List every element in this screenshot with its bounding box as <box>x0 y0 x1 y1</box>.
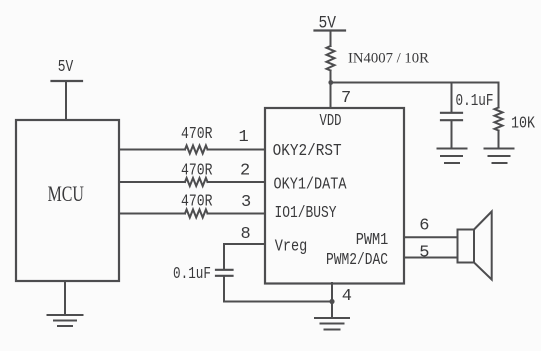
value label 0.1uF (VDD cap) <box>456 91 494 110</box>
wire 5V rail to resistor <box>330 31 332 47</box>
wire VDD branch corner down <box>498 83 500 108</box>
svg-text:5: 5 <box>419 244 429 263</box>
net label 5V (MCU supply) <box>58 56 73 76</box>
svg-text:10K: 10K <box>511 113 536 133</box>
resistor IN4007 / 10R <box>327 46 335 71</box>
svg-text:0.1uF: 0.1uF <box>173 264 211 283</box>
svg-text:PWM1: PWM1 <box>356 230 388 250</box>
svg-text:IN4007 / 10R: IN4007 / 10R <box>348 50 429 66</box>
svg-text:0.1uF: 0.1uF <box>456 91 494 110</box>
pin label PWM1 <box>356 230 388 250</box>
wire IC pin 4 to ground <box>331 283 333 318</box>
junction node pin 4 <box>329 299 334 304</box>
value label 0.1uF (Vreg cap) <box>173 264 211 283</box>
wire resistor to IC pin 3 <box>208 213 265 215</box>
wire IC pin 6 to speaker <box>404 236 457 238</box>
wire resistor to IC pin 1 <box>208 149 265 151</box>
svg-text:7: 7 <box>341 89 351 108</box>
svg-text:OKY2/RST: OKY2/RST <box>273 141 342 160</box>
pin number 3 <box>241 193 251 212</box>
svg-text:4: 4 <box>342 287 352 306</box>
pin number 7 <box>341 89 351 108</box>
svg-text:MCU: MCU <box>48 183 84 207</box>
wire IC pin 8 to cap <box>224 244 264 269</box>
pin number 4 <box>342 287 352 306</box>
capacitor 0.1uF (Vreg) <box>216 270 233 276</box>
value label 470R (pin 1) <box>181 123 212 143</box>
pin label Vreg <box>275 236 307 256</box>
pin label IO1/BUSY <box>275 202 337 222</box>
pin number 1 <box>239 128 249 147</box>
svg-text:6: 6 <box>419 217 429 236</box>
wire 5V to MCU <box>65 81 67 119</box>
block MCU <box>16 120 119 281</box>
svg-text:8: 8 <box>241 225 251 244</box>
speaker LS1 <box>458 212 492 280</box>
svg-text:470R: 470R <box>181 160 212 180</box>
svg-text:3: 3 <box>241 193 251 212</box>
svg-text:OKY1/DATA: OKY1/DATA <box>274 174 348 194</box>
ground (MCU) <box>48 315 83 326</box>
capacitor 0.1uF (VDD) <box>441 83 462 149</box>
resistor 470R (pin 2) <box>185 178 208 186</box>
ground (10K) <box>485 149 514 164</box>
resistor 470R (pin 1) <box>185 146 208 154</box>
wire 10K to ground <box>498 131 500 149</box>
svg-text:VDD: VDD <box>320 113 342 131</box>
pin number 2 <box>240 162 250 181</box>
wire cap to pin 4 node <box>224 277 332 302</box>
value label 470R (pin 3) <box>181 191 212 211</box>
pin label VDD <box>320 113 342 131</box>
junction node VDD <box>328 80 333 85</box>
value label IN4007 / 10R <box>348 50 429 66</box>
pin number 6 <box>419 217 429 236</box>
pin label OKY1/DATA <box>274 174 348 194</box>
power rail 5V (VDD) <box>315 29 346 31</box>
pin label PWM2/DAC <box>326 249 388 269</box>
resistor 470R (pin 3) <box>185 210 208 218</box>
wire VDD node to decoupling branch <box>331 82 499 84</box>
net label 5V (VDD supply) <box>319 12 337 33</box>
pin number 5 <box>419 244 429 263</box>
svg-text:470R: 470R <box>181 191 212 211</box>
wire MCU to resistor (pin 3) <box>119 213 185 215</box>
IC U1 body <box>265 108 404 284</box>
wire resistor to IC pin 7 <box>330 71 332 109</box>
svg-text:Vreg: Vreg <box>275 236 307 256</box>
svg-text:PWM2/DAC: PWM2/DAC <box>326 249 388 269</box>
power rail 5V (MCU) <box>52 80 83 82</box>
ground (pin 4) <box>315 318 349 330</box>
wire MCU to ground <box>64 281 66 315</box>
wire MCU to resistor (pin 1) <box>119 149 185 151</box>
wire IC pin 5 to speaker <box>404 257 457 259</box>
svg-text:470R: 470R <box>181 123 212 143</box>
wire MCU to resistor (pin 2) <box>119 181 185 183</box>
ground (VDD cap) <box>438 149 467 164</box>
value label 10K <box>511 113 536 133</box>
svg-text:2: 2 <box>240 162 250 181</box>
value label 470R (pin 2) <box>181 160 212 180</box>
svg-text:1: 1 <box>239 128 249 147</box>
label MCU <box>48 183 84 207</box>
svg-text:IO1/BUSY: IO1/BUSY <box>275 202 337 222</box>
pin label OKY2/RST <box>273 141 342 160</box>
svg-text:5V: 5V <box>58 56 73 76</box>
pin number 8 <box>241 225 251 244</box>
resistor 10K <box>495 108 503 131</box>
wire resistor to IC pin 2 <box>208 181 265 183</box>
